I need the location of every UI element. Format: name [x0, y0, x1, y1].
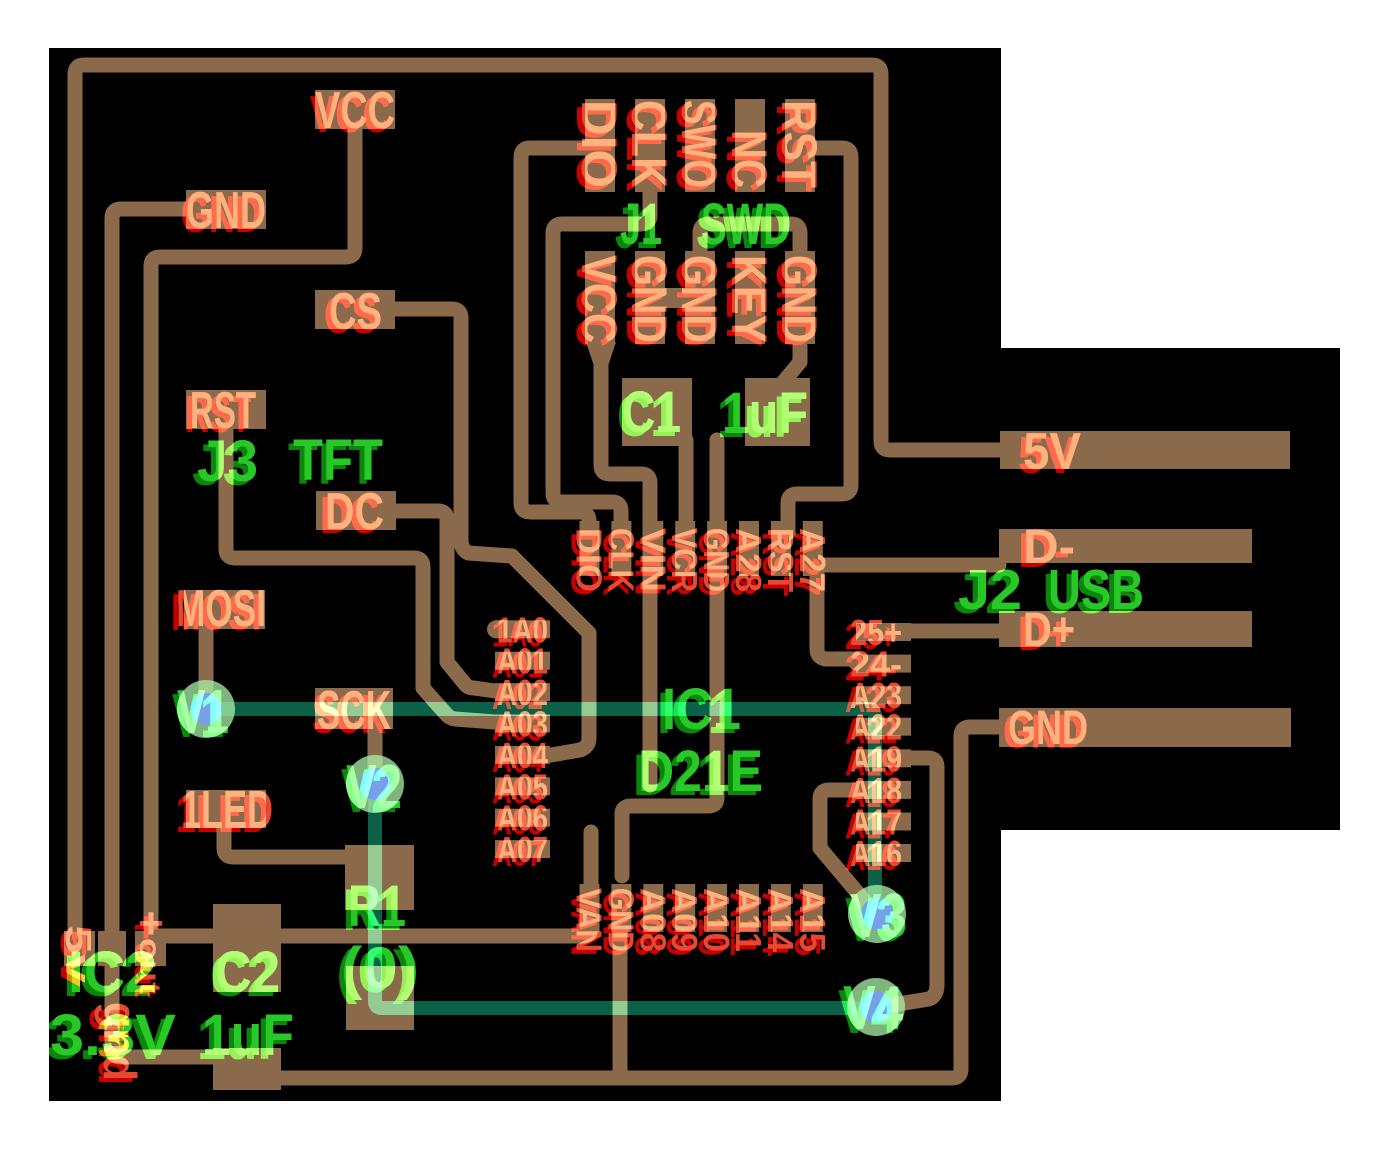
- svg-text:(0): (0): [341, 936, 419, 1001]
- svg-text:VCC: VCC: [315, 82, 395, 140]
- svg-text:C1: C1: [622, 380, 681, 445]
- svg-text:GND: GND: [621, 255, 677, 343]
- svg-text:IC2: IC2: [68, 940, 157, 1005]
- svg-text:VCC: VCC: [571, 255, 627, 343]
- svg-text:GND: GND: [671, 255, 727, 343]
- svg-text:IC1: IC1: [662, 677, 741, 742]
- svg-text:V3: V3: [850, 882, 907, 951]
- svg-text:J2: J2: [958, 558, 1022, 622]
- svg-text:1uF: 1uF: [202, 1003, 294, 1068]
- svg-text:1uF: 1uF: [722, 381, 808, 446]
- svg-text:CS: CS: [329, 283, 382, 341]
- svg-text:SCK: SCK: [317, 679, 391, 741]
- svg-text:J3: J3: [197, 429, 258, 494]
- svg-text:D21E: D21E: [638, 739, 763, 804]
- svg-text:R1: R1: [348, 874, 406, 939]
- svg-text:USB: USB: [1048, 558, 1144, 622]
- svg-text:GND: GND: [186, 182, 266, 240]
- svg-text:V4: V4: [843, 974, 903, 1043]
- svg-text:GND: GND: [1008, 702, 1088, 755]
- svg-text:TFT: TFT: [293, 428, 383, 493]
- svg-text:V1: V1: [177, 678, 229, 747]
- svg-text:SWD: SWD: [701, 192, 791, 257]
- svg-text:NC: NC: [721, 130, 777, 188]
- svg-text:A27: A27: [792, 528, 833, 592]
- svg-text:1LED: 1LED: [181, 780, 273, 840]
- svg-text:C2: C2: [215, 940, 280, 1005]
- svg-text:SWO: SWO: [671, 100, 727, 188]
- svg-text:KEY: KEY: [721, 255, 777, 343]
- svg-text:MOSI: MOSI: [176, 580, 266, 638]
- svg-text:3.3V: 3.3V: [50, 1003, 176, 1068]
- svg-text:DIO: DIO: [571, 100, 627, 188]
- svg-text:A07: A07: [497, 829, 548, 870]
- svg-text:CLK: CLK: [621, 100, 677, 188]
- svg-text:A16: A16: [850, 833, 902, 874]
- svg-text:A15: A15: [792, 888, 833, 952]
- svg-text:GND: GND: [771, 255, 827, 343]
- svg-text:5V: 5V: [1023, 423, 1081, 481]
- svg-text:V2: V2: [346, 753, 402, 822]
- svg-text:J1: J1: [620, 192, 662, 257]
- svg-text:RST: RST: [771, 100, 827, 188]
